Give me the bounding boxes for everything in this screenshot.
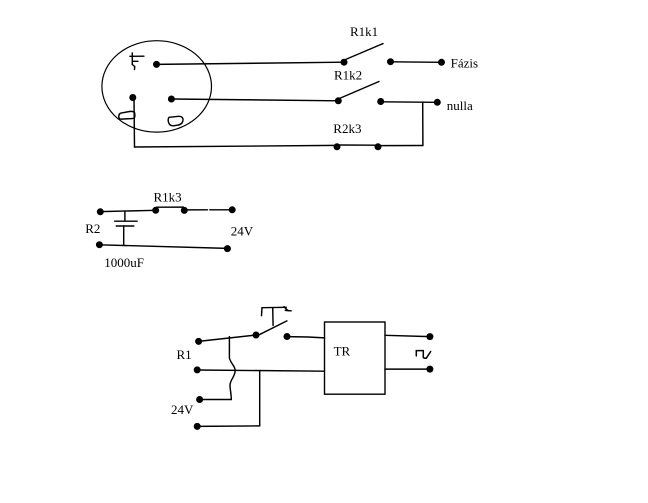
wire nulla branch down xyxy=(422,102,424,145)
pushbutton actuator arrow xyxy=(284,307,291,311)
plug socket circle xyxy=(102,41,212,132)
capacitor C1 plate top xyxy=(115,220,137,222)
svg-text:24V: 24V xyxy=(231,224,254,239)
pushbutton left node xyxy=(253,332,260,339)
capacitor C1 plate bottom xyxy=(116,225,134,227)
wire TR output top xyxy=(385,335,430,336)
contact R1k3 blade xyxy=(157,206,184,208)
node socket left pin xyxy=(129,94,136,101)
node 24V coil top xyxy=(196,396,203,403)
capacitor C1 stem bottom xyxy=(123,226,125,245)
node socket top pin xyxy=(153,61,160,68)
earth clip left xyxy=(119,111,135,119)
node bottom rail xyxy=(194,423,201,430)
wire bottom run to R2k3 xyxy=(135,145,338,147)
node 24V top xyxy=(229,206,236,213)
pushbutton blade xyxy=(257,321,287,336)
contact R1k2 right node xyxy=(377,98,384,105)
node nulla xyxy=(434,99,441,106)
wire mid to TR xyxy=(197,370,324,371)
node socket right pin xyxy=(168,96,175,103)
svg-text:R1k2: R1k2 xyxy=(334,67,362,82)
svg-text:R2k3: R2k3 xyxy=(333,121,361,136)
earth pin symbol xyxy=(130,53,144,70)
wire R1k3 to 24V node xyxy=(184,209,232,211)
svg-text:24V: 24V xyxy=(171,402,194,417)
svg-text:R1: R1 xyxy=(177,347,192,362)
contact R1k1 left node xyxy=(341,59,348,66)
contact R1k1 blade xyxy=(346,44,384,60)
node Fazis xyxy=(438,59,445,66)
svg-text:nulla: nulla xyxy=(447,98,473,113)
waveform symbol xyxy=(416,351,430,359)
node R2 top left xyxy=(97,208,104,215)
svg-text:R1k3: R1k3 xyxy=(154,190,182,205)
contact R2k3 blade xyxy=(337,144,378,146)
wire R1 branch down wavy xyxy=(229,337,235,400)
svg-text:R1k1: R1k1 xyxy=(350,24,378,39)
earth clip right xyxy=(168,116,183,126)
contact R1k3 right node xyxy=(181,207,188,214)
wire R2k3 to nulla branch xyxy=(378,145,423,147)
wire right pin to R1k2 xyxy=(171,99,338,101)
wire pushbutton to TR xyxy=(287,337,325,338)
node output top xyxy=(426,333,433,340)
svg-text:1000uF: 1000uF xyxy=(104,255,144,270)
wire R1k1 to Fazis xyxy=(391,61,442,64)
node R1 top xyxy=(195,338,202,345)
node R1 mid xyxy=(194,366,201,373)
contact R1k1 right node xyxy=(387,58,394,65)
wire bottom rail xyxy=(197,425,260,428)
pushbutton actuator left tick xyxy=(261,308,264,316)
svg-text:TR: TR xyxy=(334,344,351,359)
node output bottom xyxy=(426,366,433,373)
pushbutton actuator bar xyxy=(262,306,286,308)
wire left pin down xyxy=(133,98,136,147)
capacitor C1 stem top xyxy=(124,212,126,221)
wire R1k2 to nulla xyxy=(381,101,438,104)
wire R2 top left xyxy=(100,210,155,211)
contact R1k2 blade xyxy=(341,82,380,99)
node 24V bottom xyxy=(224,245,231,252)
wire R2 bottom xyxy=(99,245,227,249)
pushbutton actuator stem xyxy=(272,308,274,326)
contact R1k3 left node xyxy=(152,207,159,214)
wire coil top xyxy=(200,399,232,401)
transformer TR box xyxy=(325,322,386,394)
node R2 bottom left xyxy=(96,241,103,248)
svg-text:Fázis: Fázis xyxy=(451,56,478,71)
wire bottom rail up xyxy=(259,371,261,426)
wire TR output bottom xyxy=(385,368,430,370)
svg-text:R2: R2 xyxy=(85,221,100,236)
contact R1k2 left node xyxy=(335,97,342,104)
contact R2k3 right node xyxy=(375,143,382,150)
wire R1 to pushbutton xyxy=(199,335,256,341)
pushbutton right node xyxy=(284,333,291,340)
contact R2k3 left node xyxy=(334,143,341,150)
wire top pin to R1k1 xyxy=(157,62,345,64)
